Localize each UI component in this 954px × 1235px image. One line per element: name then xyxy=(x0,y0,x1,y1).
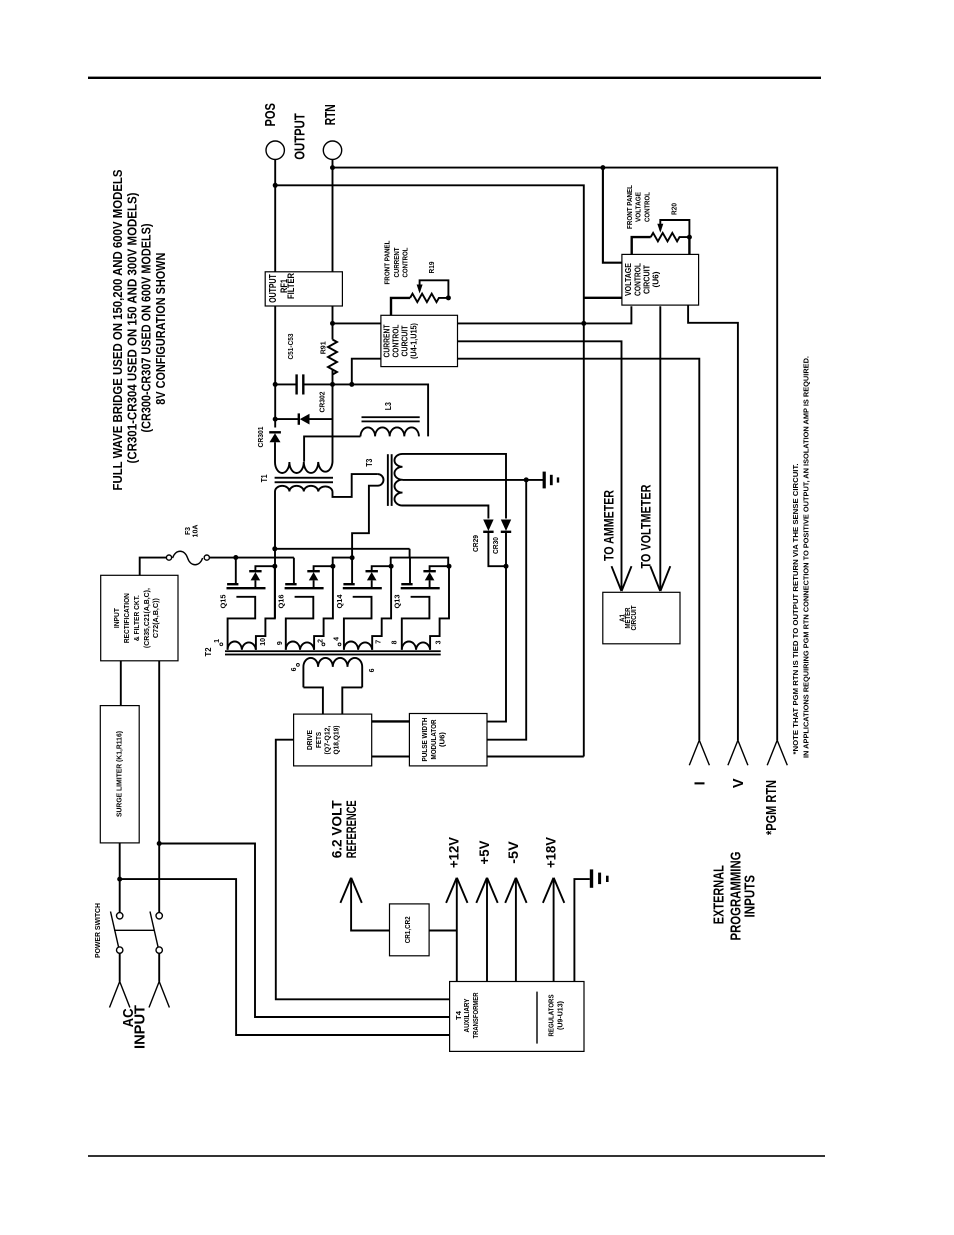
node CR29 CR30 junction xyxy=(504,564,509,569)
wire RTN sense rail to PGM RTN xyxy=(333,168,778,741)
T3 core xyxy=(387,454,389,506)
svg-text:4: 4 xyxy=(333,637,340,641)
svg-text:OUTPUT: OUTPUT xyxy=(268,274,279,303)
wire R91 bottom to cap line xyxy=(332,370,334,385)
svg-text:(CR300-CR307 USED ON 600V MODE: (CR300-CR307 USED ON 600V MODELS) xyxy=(139,224,154,433)
ground T3 center tap xyxy=(543,472,560,489)
wire drive fets to PWM upper xyxy=(372,720,410,722)
wire input rect to surge limiter xyxy=(120,661,122,706)
node right line branch to aux xyxy=(157,841,162,846)
wire R19 left lead xyxy=(391,298,410,315)
AC input fork right xyxy=(149,982,169,1008)
svg-text:(Q7-Q12,: (Q7-Q12, xyxy=(323,726,332,755)
transistor Q13 xyxy=(401,558,452,650)
wire POS through RF1 to cap line xyxy=(274,306,276,384)
svg-text:CONTROL: CONTROL xyxy=(633,263,642,296)
arrow 6.2V reference xyxy=(351,880,389,931)
transistor Q16 xyxy=(285,558,336,650)
svg-text:INPUT: INPUT xyxy=(132,1005,148,1049)
svg-text:Q13: Q13 xyxy=(393,595,402,609)
title text block xyxy=(110,169,168,490)
svg-text:*NOTE THAT PGM RTN IS TIED TO: *NOTE THAT PGM RTN IS TIED TO OUTPUT RET… xyxy=(791,464,800,755)
svg-text:R19: R19 xyxy=(429,261,436,273)
wire CR30 junction down to PWM xyxy=(487,566,506,721)
resistor R91 xyxy=(328,340,337,375)
wire T2 secondary right lead to drive fets xyxy=(342,687,362,714)
svg-text:Q18,Q19): Q18,Q19) xyxy=(331,725,340,754)
potentiometer R20 xyxy=(651,233,690,241)
wire to voltmeter from voltage control xyxy=(659,306,661,589)
wire surge branch to aux transformer xyxy=(120,879,450,1035)
arrowhead ammeter xyxy=(612,566,632,591)
node bus A origin on T1 lead xyxy=(272,546,277,551)
pulse width modulator box U6 xyxy=(409,714,487,766)
svg-text:6: 6 xyxy=(291,667,298,671)
wire T3 secondary bottom lead to CR29 xyxy=(403,506,489,519)
power switch xyxy=(111,912,163,954)
wire right line branch to aux transformer xyxy=(159,844,449,1018)
svg-text:OUTPUT: OUTPUT xyxy=(292,113,308,160)
input fork PGM RTN xyxy=(767,740,787,765)
svg-text:C72(A,B,C)): C72(A,B,C)) xyxy=(151,598,160,639)
svg-text:CR29: CR29 xyxy=(471,535,480,552)
node cap line current control branch xyxy=(349,382,354,387)
svg-text:CR301: CR301 xyxy=(256,427,265,448)
svg-text:CR1,CR2: CR1,CR2 xyxy=(403,916,412,943)
wire center-tap feedback down to PWM xyxy=(487,480,526,740)
arrowhead voltmeter xyxy=(650,566,670,591)
wire Q13 gate from bus A xyxy=(409,549,411,558)
svg-text:& FILTER CKT.: & FILTER CKT. xyxy=(132,595,141,641)
svg-text:7: 7 xyxy=(375,640,382,644)
diode CR29 xyxy=(483,520,506,567)
wire current control out3 to I input xyxy=(458,359,700,741)
svg-text:8V CONFIGURATION SHOWN: 8V CONFIGURATION SHOWN xyxy=(153,253,168,405)
svg-text:CONTROL: CONTROL xyxy=(642,192,651,222)
svg-text:POS: POS xyxy=(263,103,279,127)
node POS rail junction xyxy=(273,183,278,188)
svg-text:(U9-U13): (U9-U13) xyxy=(555,1000,564,1030)
rail arrow +18V xyxy=(553,880,555,982)
transformer T2 core xyxy=(225,650,441,652)
top rule xyxy=(88,77,821,79)
svg-text:(CR301-CR304 USED ON 150 AND 3: (CR301-CR304 USED ON 150 AND 300V MODELS… xyxy=(125,193,140,464)
wire current control out1 to voltage control xyxy=(458,306,632,323)
aux transformer regulators box xyxy=(450,982,584,1052)
wire surge limiter to switch xyxy=(119,843,121,913)
capacitor C51-C53 xyxy=(297,374,304,394)
svg-text:CIRCUIT: CIRCUIT xyxy=(642,265,651,294)
A1 meter circuit box xyxy=(603,592,680,644)
terminal RTN xyxy=(323,141,341,159)
wire Q16 drain link xyxy=(333,558,352,567)
svg-text:T2: T2 xyxy=(204,647,213,657)
T1 core xyxy=(275,477,333,479)
node R19 right terminal xyxy=(446,295,451,300)
rail arrow +12V xyxy=(456,880,458,982)
transistor Q14 xyxy=(343,558,394,650)
wire POS sense rail xyxy=(275,185,584,756)
svg-text:10A: 10A xyxy=(193,525,200,538)
wire RTN RF1 to R91 top xyxy=(332,306,334,340)
svg-text:I: I xyxy=(693,781,709,785)
svg-text:8: 8 xyxy=(391,640,398,644)
svg-text:CONTROL: CONTROL xyxy=(400,247,409,277)
svg-text:CURRENT: CURRENT xyxy=(382,324,391,357)
svg-text:VOLTAGE: VOLTAGE xyxy=(634,192,643,222)
wire input rect box to fuse xyxy=(140,558,167,576)
svg-text:+12V: +12V xyxy=(447,837,462,868)
inductor L3 xyxy=(361,416,420,436)
box CR1 CR2 xyxy=(390,904,430,956)
svg-text:MODULATOR: MODULATOR xyxy=(429,719,438,759)
svg-text:VOLTAGE: VOLTAGE xyxy=(624,262,633,296)
svg-text:1: 1 xyxy=(214,639,221,643)
svg-text:FETS: FETS xyxy=(314,732,323,748)
svg-text:REGULATORS: REGULATORS xyxy=(547,994,556,1036)
wire R20 left lead xyxy=(632,237,651,254)
wire RTN rail to voltage control circuit xyxy=(603,168,622,263)
voltage control circuit box U6 xyxy=(622,254,699,305)
wire POS vertical to CR301 xyxy=(274,384,276,427)
current control circuit box U4-1 U15 xyxy=(381,315,458,366)
svg-text:R20: R20 xyxy=(671,203,678,215)
svg-text:C51-C53: C51-C53 xyxy=(286,334,295,360)
wire T3 secondary top lead to CR30 xyxy=(403,454,507,519)
wire cap line to current control lower pin xyxy=(352,359,381,385)
node R20 right terminal xyxy=(687,235,692,240)
wire cap line left xyxy=(275,383,296,385)
svg-text:Q14: Q14 xyxy=(335,594,344,609)
wire voltage control out to V input xyxy=(688,305,738,740)
svg-text:(U4-1,U15): (U4-1,U15) xyxy=(410,323,419,359)
wire POS rail to voltage control circuit xyxy=(584,297,622,299)
T1 secondary winding bottom xyxy=(275,486,332,492)
wire T1 secondary right lead to T3 primary xyxy=(333,474,378,497)
svg-text:TO AMMETER: TO AMMETER xyxy=(601,490,617,561)
node surge branch to aux xyxy=(117,877,122,882)
wire CR1 box to +12V line xyxy=(429,930,457,932)
svg-text:T3: T3 xyxy=(365,458,374,466)
wire drive fets to PWM lower xyxy=(372,756,410,758)
svg-text:+18V: +18V xyxy=(544,837,559,868)
phase dot pin 4 xyxy=(338,643,341,646)
svg-text:AUXILIARY: AUXILIARY xyxy=(462,998,471,1032)
wire T1 center-tap line xyxy=(304,436,360,461)
input rectification box xyxy=(101,575,178,661)
wire POS rail feedback to PWM xyxy=(487,756,584,758)
node RTN rail junction xyxy=(330,165,335,170)
diode CR30 xyxy=(501,520,511,567)
svg-text:POWER SWITCH: POWER SWITCH xyxy=(93,903,102,958)
R19 wiper arrow xyxy=(420,280,449,298)
svg-text:Q15: Q15 xyxy=(219,595,228,609)
T2 secondary winding xyxy=(303,658,362,688)
svg-text:PULSE WIDTH: PULSE WIDTH xyxy=(420,718,429,762)
svg-text:*PGM RTN: *PGM RTN xyxy=(764,780,780,835)
svg-text:FRONT PANEL: FRONT PANEL xyxy=(383,240,392,284)
svg-text:CR30: CR30 xyxy=(491,537,500,554)
diode CR301 xyxy=(269,432,281,459)
svg-text:DRIVE: DRIVE xyxy=(305,730,314,750)
surge limiter box xyxy=(100,706,139,843)
svg-text:CURCUIT: CURCUIT xyxy=(401,325,410,356)
input fork V xyxy=(728,740,748,765)
svg-text:(CR35,C21(A,B,C),: (CR35,C21(A,B,C), xyxy=(142,588,151,648)
phase dot pin 1 xyxy=(220,643,223,646)
svg-text:FULL WAVE BRIDGE USED ON 150,2: FULL WAVE BRIDGE USED ON 150,200 AND 600… xyxy=(110,169,125,490)
svg-text:V: V xyxy=(731,778,747,788)
ground regulators xyxy=(590,869,609,887)
rail arrow +5V xyxy=(486,880,488,982)
node T3 primary Q14 gate junction xyxy=(350,555,355,560)
svg-text:6: 6 xyxy=(369,668,376,672)
svg-text:F3: F3 xyxy=(185,527,192,535)
svg-text:TO VOLTMETER: TO VOLTMETER xyxy=(637,485,653,569)
wire cap line right to L3 xyxy=(303,384,428,436)
svg-text:CONTROL: CONTROL xyxy=(391,324,400,357)
wire Q14-Q13 drain link xyxy=(391,558,449,567)
wire switch to AC fork left xyxy=(119,953,121,981)
AC input fork left xyxy=(110,982,130,1008)
wire aux to ground xyxy=(574,879,589,981)
svg-text:REFERENCE: REFERENCE xyxy=(344,800,359,858)
svg-text:R91: R91 xyxy=(319,341,328,354)
wire drive fets left to aux transformer xyxy=(276,740,450,1000)
svg-text:6.2 VOLT: 6.2 VOLT xyxy=(330,800,345,859)
node voltage-control tap on RTN rail xyxy=(600,165,605,170)
node cap line RTN branch xyxy=(330,382,335,387)
transistor Q15 xyxy=(227,558,278,650)
wire T1 secondary left lead down to bridge xyxy=(274,492,276,619)
wire fuse bus xyxy=(209,557,294,559)
svg-text:10: 10 xyxy=(260,638,267,646)
svg-text:T1: T1 xyxy=(260,474,269,482)
wire drain bus A xyxy=(275,548,410,550)
T1 primary winding top xyxy=(275,436,332,473)
bottom rule xyxy=(88,1155,825,1157)
R20 wiper arrow xyxy=(660,220,689,237)
svg-text:INPUT: INPUT xyxy=(112,608,121,628)
drive fets box Q7-Q12 Q18 Q19 xyxy=(294,714,372,766)
potentiometer R19 xyxy=(410,294,448,302)
terminal POS xyxy=(266,141,284,159)
diode CR302 xyxy=(275,413,332,424)
svg-text:L3: L3 xyxy=(384,402,393,410)
svg-text:Q16: Q16 xyxy=(277,595,286,609)
svg-text:SURGE LIMITER (K1,R116): SURGE LIMITER (K1,R116) xyxy=(115,730,124,817)
svg-text:RTN: RTN xyxy=(323,104,339,125)
node R91 top current control tap xyxy=(330,321,335,326)
svg-text:(U6): (U6) xyxy=(652,271,661,287)
svg-text:FILTER: FILTER xyxy=(286,273,297,299)
svg-text:2: 2 xyxy=(317,639,324,643)
svg-text:TRANSFORMER: TRANSFORMER xyxy=(471,992,480,1039)
node POS rail out1 cross xyxy=(581,321,586,326)
T3 primary winding xyxy=(352,474,383,556)
wire input rect right output down xyxy=(158,661,160,844)
input fork I xyxy=(689,740,709,765)
svg-text:CR302: CR302 xyxy=(317,392,326,413)
wire RTN vertical terminal to RF1 xyxy=(332,159,334,271)
T3 secondary winding xyxy=(395,454,403,506)
wire CR302 vertical to tap line xyxy=(332,384,334,436)
node CR301 CR302 junction xyxy=(273,417,278,422)
node cap line POS junction xyxy=(273,382,278,387)
node Q15 gate tap xyxy=(233,555,238,560)
svg-text:3: 3 xyxy=(435,640,442,644)
wire T3 secondary center tap to ground xyxy=(403,479,544,481)
svg-text:IN APPLICATIONS REQUIRING PGM: IN APPLICATIONS REQUIRING PGM RTN CONNEC… xyxy=(802,356,811,758)
svg-text:(U6): (U6) xyxy=(438,731,447,747)
svg-text:EXTERNAL: EXTERNAL xyxy=(710,865,727,924)
rail arrow -5V xyxy=(515,880,517,982)
phase dot pin 2 xyxy=(322,643,325,646)
wire switch to AC fork right xyxy=(158,953,160,981)
svg-text:INPUTS: INPUTS xyxy=(742,875,759,918)
output RF1 filter box xyxy=(265,272,342,306)
wire right line to switch xyxy=(158,844,160,913)
node center tap PWM feedback xyxy=(524,477,529,482)
wire T2 secondary left lead to drive fets xyxy=(303,687,323,714)
wire POS vertical terminal to RF1 xyxy=(274,159,276,271)
wire to ammeter from current control xyxy=(458,341,622,589)
svg-text:9: 9 xyxy=(277,641,284,645)
svg-text:-5V: -5V xyxy=(506,841,521,864)
svg-text:RECTIFICATION: RECTIFICATION xyxy=(122,593,131,643)
fuse F3 10A xyxy=(166,551,209,565)
svg-text:+5V: +5V xyxy=(477,841,492,865)
wire R91 top to current control circuit xyxy=(333,322,381,324)
svg-text:CIRCUIT: CIRCUIT xyxy=(631,605,638,631)
wire R20 right to box xyxy=(688,237,690,254)
